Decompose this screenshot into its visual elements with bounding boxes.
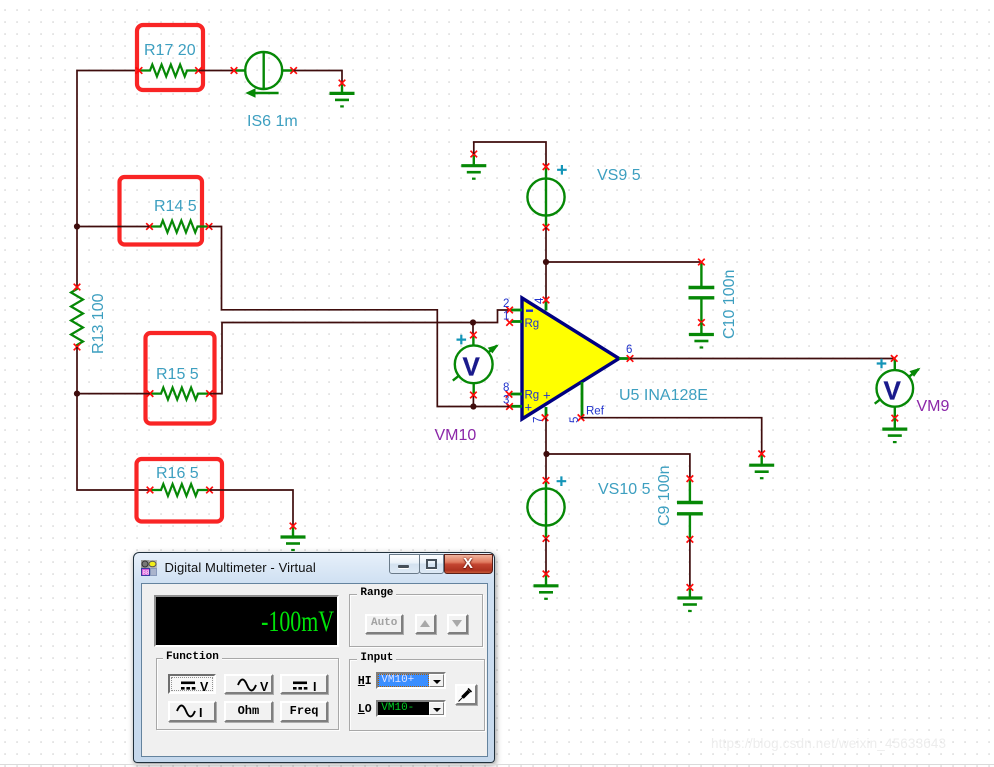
- LO label: [358, 703, 372, 716]
- ground (C10): [689, 323, 714, 348]
- pin 6 (output): [619, 344, 633, 362]
- svg-text:+: +: [525, 400, 533, 415]
- svg-text:I: I: [313, 680, 316, 694]
- ground (IS6): [330, 80, 355, 107]
- watermark: [711, 736, 946, 751]
- svg-text:1: 1: [503, 311, 509, 323]
- svg-text:R17 20: R17 20: [144, 42, 196, 59]
- node: junction dot at R14 branch: [74, 223, 80, 229]
- wire VS9 down to op-amp pin4: [545, 227, 547, 300]
- ground (top, VS9 feed): [461, 151, 486, 179]
- svg-text:C9 100n: C9 100n: [656, 466, 673, 527]
- resistor R15 5: [147, 366, 213, 400]
- DMM close button: [444, 554, 493, 575]
- node: junction dot VM10 bottom: [470, 403, 476, 409]
- ground (VS10): [534, 571, 559, 599]
- DC-I button: [280, 674, 328, 694]
- wire ground to VS9: [474, 142, 546, 167]
- red highlight box around R14: [120, 177, 203, 245]
- svg-text:U5 INA128E: U5 INA128E: [619, 387, 708, 404]
- Input group box: [349, 659, 485, 732]
- svg-text:V: V: [260, 680, 269, 694]
- svg-text:VM9: VM9: [917, 398, 950, 415]
- ground (VM9): [882, 418, 907, 442]
- Ohm button: [224, 701, 272, 722]
- svg-text:V: V: [884, 376, 902, 406]
- wire R16 to ground: [210, 490, 294, 526]
- wire rail to R15: [77, 393, 150, 395]
- svg-text:4: 4: [534, 297, 546, 304]
- node: junction dot VM10 top: [470, 319, 476, 325]
- wire VM10 junction to pin3: [473, 406, 509, 408]
- Freq button: [280, 701, 328, 722]
- wire VM10 bottom stub: [472, 395, 474, 407]
- op-amp U5 INA128E (yellow triangle): [522, 298, 619, 419]
- wire left rail top: from R17 left down the left side: [77, 71, 139, 288]
- svg-text:R14 5: R14 5: [154, 198, 197, 215]
- svg-text:7: 7: [533, 417, 545, 423]
- pin 1 (Rg): [503, 311, 522, 326]
- wire R14 to op-amp pin3 row (down the middle bypass): [209, 227, 473, 407]
- DMM window icon: [141, 560, 157, 576]
- wire VS10 to ground: [545, 539, 547, 574]
- Digital Multimeter window: [133, 552, 495, 763]
- svg-text:5: 5: [569, 417, 581, 423]
- ground (R16): [281, 523, 306, 550]
- svg-text:R13 100: R13 100: [90, 293, 107, 354]
- wire VM10 top stub: [472, 323, 474, 336]
- pin 3 (non-inverting input): [503, 395, 522, 410]
- DMM display: [154, 595, 339, 647]
- current source IS6 1m: [231, 52, 298, 130]
- pin 7 (V- bottom): [533, 407, 549, 423]
- ground (C9): [677, 584, 702, 611]
- svg-text:8: 8: [503, 382, 509, 394]
- pin 4 (V+ top): [534, 297, 549, 311]
- svg-text:Rg: Rg: [525, 318, 540, 330]
- resistor R14 5: [146, 198, 212, 233]
- svg-text:6: 6: [626, 344, 632, 356]
- svg-text:C10 100n: C10 100n: [721, 270, 738, 339]
- ground (Ref): [749, 451, 774, 479]
- wire pin5 Ref to ground: [581, 418, 762, 454]
- HI combo (VM10+): [376, 672, 446, 689]
- svg-text:Ref: Ref: [586, 406, 605, 418]
- DC-V button (selected): [168, 674, 216, 694]
- wire IS6 to ground: [294, 71, 342, 84]
- bottom edge line: [0, 764, 994, 766]
- wire left rail bottom: [77, 347, 150, 490]
- wire junction to C10: [546, 261, 701, 263]
- red highlight box around R17: [137, 25, 203, 90]
- wire junction to C9: [547, 454, 690, 479]
- node: junction dot at R15 branch: [74, 391, 80, 397]
- svg-text:R16 5: R16 5: [156, 465, 199, 482]
- red highlight box around R16: [137, 459, 223, 522]
- HI label: [358, 675, 372, 688]
- red highlight box around R15: [146, 333, 215, 424]
- Range up button: [415, 614, 437, 634]
- node: junction dot pin7/C9: [543, 451, 549, 457]
- svg-text:VM10: VM10: [435, 427, 477, 444]
- svg-text:+: +: [543, 388, 551, 403]
- svg-text:VS9 5: VS9 5: [597, 167, 641, 184]
- pin 8 (Rg): [503, 382, 522, 398]
- wire rail to R14: [77, 226, 150, 228]
- LO combo (VM10-): [376, 700, 446, 717]
- pin 2 (inverting input): [503, 298, 522, 313]
- DMM title text: [165, 560, 316, 575]
- Range group box: [349, 594, 483, 647]
- AC-V button: [224, 674, 272, 694]
- capacitor C10 100n: [689, 259, 739, 339]
- svg-text:2: 2: [503, 298, 509, 310]
- Function group box: [156, 658, 339, 730]
- voltmeter VM9: [875, 355, 950, 421]
- DMM content panel: [141, 583, 488, 758]
- capacitor C9 100n: [656, 466, 703, 543]
- resistor R16 5: [147, 465, 213, 496]
- pin 5 (Ref): [569, 382, 584, 423]
- svg-text:I: I: [199, 706, 202, 720]
- Auto button (disabled): [365, 614, 404, 634]
- wire R15 up to op-amp pin2 row: [210, 310, 510, 394]
- resistor R17 20: [136, 42, 202, 77]
- wire pin7 down to VS10: [545, 418, 547, 481]
- wire C9 to ground: [689, 539, 691, 587]
- svg-text:88: 88: [143, 570, 150, 576]
- wire R17 to IS6: [199, 70, 235, 72]
- svg-text:V: V: [463, 352, 481, 382]
- DMM maximize button: [419, 554, 444, 575]
- voltmeter VM10: [435, 332, 499, 444]
- svg-text:R15 5: R15 5: [156, 366, 199, 383]
- probe button: [455, 684, 477, 705]
- node: junction dot VS9/C10: [543, 259, 549, 265]
- AC-I button: [168, 701, 216, 722]
- voltage source VS10 5: [527, 476, 650, 541]
- svg-text:3: 3: [503, 395, 509, 407]
- DMM minimize button: [389, 554, 420, 575]
- Range down button: [447, 614, 469, 634]
- wire pin6 to VM9: [630, 358, 894, 360]
- svg-text:VS10 5: VS10 5: [598, 481, 651, 498]
- svg-text:V: V: [200, 680, 209, 694]
- voltage source VS9 5: [527, 163, 640, 230]
- resistor R13 100 (vertical, on left rail): [71, 284, 107, 354]
- svg-text:IS6 1m: IS6 1m: [247, 113, 298, 130]
